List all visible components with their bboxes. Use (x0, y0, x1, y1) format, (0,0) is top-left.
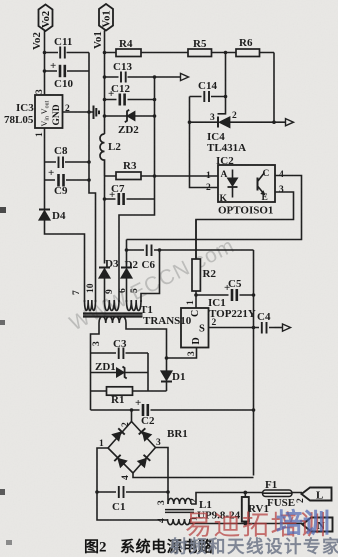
op arrow C13 (181, 73, 189, 80)
wire C8 line (45, 161, 90, 163)
wire IC1 pin3 to drain (167, 348, 197, 359)
wire D2 branch (126, 240, 128, 264)
wire IC2 pin3 line (196, 192, 294, 259)
svg-text:培训: 培训 (276, 509, 330, 539)
speck left edge 2 (0, 320, 5, 325)
node R5-R6 junction (224, 51, 228, 55)
wire C7 line (105, 198, 155, 200)
inductor L2 (100, 134, 105, 176)
ground (93, 106, 95, 120)
wire C1 line (97, 491, 168, 493)
wire L1 bottom right to N line (190, 519, 302, 524)
wire C9 line (45, 179, 90, 181)
wire bridge bottom vertex to return rail (133, 473, 254, 478)
capacitor C2 (140, 404, 151, 417)
rectifier BR1 diamond (108, 422, 156, 474)
wire IC3 pin2 to ground (63, 111, 94, 113)
regulator IC3 78L05 (35, 95, 63, 128)
wire L1 top right up to fuse line (191, 493, 302, 505)
inductor L1 core (165, 509, 194, 511)
inductor L1 bottom winding (168, 519, 191, 525)
shunt regulator IC4 TL431A (217, 117, 219, 128)
resistor R2 (192, 259, 200, 291)
wire R3 line to optocoupler pin1 (105, 175, 219, 177)
wire ZD2 line (105, 115, 155, 117)
switcher IC1 TOP221Y (181, 308, 209, 348)
capacitor C6 (144, 244, 154, 257)
wire C3 line (91, 352, 149, 354)
wire Vo1 rail (104, 31, 106, 135)
op arrow TL431 line (286, 119, 294, 126)
wire TL431 anode line with arrow (230, 121, 286, 123)
diode D2 (121, 268, 132, 279)
wire R2 vertical from E line (195, 220, 197, 260)
wire ground rail (89, 53, 96, 303)
op arrow C4 (283, 324, 291, 331)
capacitor C9 (55, 174, 66, 187)
terminal Vo1 (99, 4, 113, 31)
speck left edge 3 (0, 489, 5, 495)
resistor R5 (188, 49, 212, 57)
wire bridge right vertex to choke (156, 448, 169, 505)
resistor R1 (107, 387, 133, 395)
zener ZD2 (127, 112, 135, 121)
wire primary right to drain (126, 323, 167, 358)
diode BR1 bottom-left (114, 455, 126, 467)
wire R4 R5 R6 line (105, 52, 275, 54)
wire D4 to transformer pin7 (45, 220, 85, 303)
wire C11 line (45, 52, 90, 54)
capacitor C14 (202, 91, 212, 103)
wire C6 line (127, 249, 254, 251)
speck left edge 4 (6, 540, 12, 545)
diode BR1 top-left (112, 428, 124, 440)
capacitor C7 (116, 193, 127, 206)
wire C12 line (105, 99, 155, 101)
wire R6 down (273, 53, 275, 123)
wire TL431 cathode to K rail (190, 121, 219, 123)
capacitor C11 (58, 46, 67, 59)
wire IC1 pin2 and C4 line (209, 327, 275, 329)
transformer T1 secondary winding 1 (85, 300, 96, 311)
capacitor C12 (117, 93, 128, 106)
wire ZD1 line (91, 372, 149, 374)
wire bridge left vertex down (97, 448, 168, 520)
op ground junction dot (87, 110, 91, 114)
wire Vo1 rail lower (104, 176, 106, 264)
svg-text:图2: 图2 (84, 539, 107, 556)
wire IC3 pin1 down (44, 128, 46, 210)
capacitor C5 (229, 289, 240, 302)
terminal Vo2 (39, 5, 53, 32)
resistor R3 (116, 172, 141, 180)
diode D1 (161, 371, 172, 382)
wire R2 bottom to C5 line (195, 291, 197, 308)
inductor L1 top winding (168, 498, 191, 504)
resistor R4 (116, 49, 141, 57)
wire C13 line with arrow (105, 76, 181, 78)
wire D2 to winding (126, 278, 128, 302)
wire Vo2 rail upper (44, 31, 46, 95)
wire C6 right to transformer pin4 (141, 250, 160, 302)
wire C2 line (91, 409, 254, 411)
wire R5R6 junction down to TL431 ref (218, 53, 226, 114)
svg-text:射频和天线设计专家: 射频和天线设计专家 (169, 537, 338, 557)
capacitor C10 (57, 65, 67, 78)
optocoupler IC2 box (218, 165, 275, 202)
transformer T1 secondary winding 2 (105, 300, 120, 311)
wire D1 vertical (166, 358, 168, 391)
wire D3 to winding (104, 278, 106, 302)
diode D4 (39, 210, 50, 221)
wire R1 line (91, 390, 167, 392)
wire IC2 pin4 line (127, 176, 302, 240)
transformer T1 secondary winding 3 (127, 300, 142, 311)
wire primary left pin3 (91, 323, 100, 410)
wire C10 line (45, 70, 90, 72)
capacitor C8 (56, 156, 65, 169)
transformer T1 core (83, 312, 143, 314)
node drain junction (165, 356, 169, 360)
transformer T1 primary winding (99, 317, 126, 323)
wire C14 left rail down to pin2 (190, 97, 219, 188)
diode D3 (99, 268, 110, 279)
capacitor C3 (116, 347, 126, 360)
resistor R6 (236, 49, 260, 57)
terminal L (302, 488, 332, 501)
capacitor C4 (259, 322, 269, 335)
rail secondary right (119, 77, 155, 302)
rail secondary return (253, 250, 255, 476)
diode BR1 top-right (139, 428, 151, 440)
wire clamp right rail (147, 353, 149, 391)
wire C5 line (196, 294, 254, 296)
speck left edge 1 (0, 207, 6, 213)
node Vo2-C11 (43, 51, 47, 55)
wire C14 line (190, 96, 226, 98)
diode BR1 bottom-right (138, 455, 150, 467)
op LED inside IC2 (232, 170, 234, 179)
varistor RV1 (242, 497, 249, 522)
wire bridge top vertex up (131, 410, 133, 422)
op phototransistor inside IC2 (257, 178, 259, 191)
capacitor C13 (119, 71, 128, 83)
zener ZD1 (117, 368, 125, 377)
terminal N (303, 518, 333, 532)
capacitor C1 (116, 486, 126, 499)
fuse F1 (263, 490, 293, 497)
